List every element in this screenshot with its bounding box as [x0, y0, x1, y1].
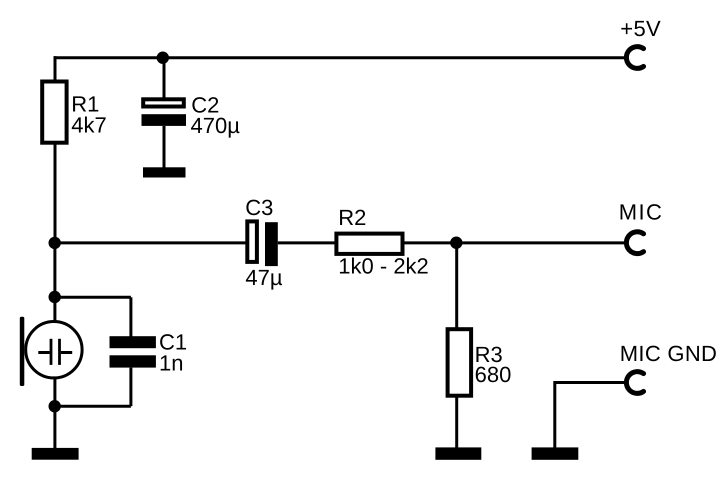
wire R3 to ground: [455, 396, 458, 448]
junction node top rail / C2: [157, 52, 169, 64]
ground below C2: [143, 167, 186, 177]
capacitor C3 left plate (+): [247, 221, 257, 262]
junction node mic bottom: [49, 400, 61, 412]
svg-text:1n: 1n: [159, 350, 183, 375]
wire C3 to R2: [278, 241, 336, 244]
wire top rail +5V: [54, 56, 625, 59]
microphone membrane bar: [20, 317, 25, 386]
svg-text:1k0 - 2k2: 1k0 - 2k2: [338, 254, 429, 279]
junction node mic top: [49, 291, 61, 303]
ground below R3: [435, 447, 481, 459]
wire mic bottom horizontal: [55, 405, 131, 408]
capacitor C1 top plate: [110, 336, 156, 348]
wire MIC GND vertical to ground: [553, 381, 556, 448]
microphone internal capacitor left bar: [50, 339, 53, 365]
capacitor C1 bottom plate: [110, 355, 156, 367]
svg-text:R2: R2: [338, 205, 366, 230]
wire junction down to R3: [455, 243, 458, 329]
ground below microphone: [32, 448, 79, 460]
wire mic circle top lead: [53, 297, 56, 321]
wire C1 top lead: [129, 297, 132, 337]
connector pin MIC GND: [626, 372, 643, 394]
resistor R2 body: [336, 234, 402, 254]
capacitor C2 top plate (+): [143, 99, 184, 106]
svg-text:470µ: 470µ: [191, 113, 241, 138]
junction node R2 right / R3: [450, 237, 462, 249]
wire mic bottom to ground: [53, 406, 56, 448]
svg-text:MIC GND: MIC GND: [620, 341, 717, 366]
svg-text:4k7: 4k7: [71, 112, 106, 137]
resistor R1 body: [42, 82, 66, 143]
wire left vertical top (rail to R1): [54, 56, 57, 81]
connector pin MIC: [626, 232, 643, 254]
wire R1 bottom to MIC-line junction: [54, 143, 57, 243]
microphone internal capacitor right bar: [58, 339, 61, 365]
wire C1 bottom lead: [129, 368, 132, 407]
microphone internal capacitor right lead: [61, 351, 72, 354]
svg-text:680: 680: [475, 362, 512, 387]
ground MIC GND: [532, 447, 579, 459]
wire C2 top lead: [163, 58, 166, 99]
wire mic top to C1 column: [55, 296, 131, 299]
microphone MIC1 body circle: [26, 322, 82, 378]
wire MIC-line junction down to mic: [53, 243, 56, 297]
capacitor C3 right plate: [265, 222, 278, 266]
svg-text:MIC: MIC: [619, 200, 664, 225]
wire MIC line left segment: [55, 241, 246, 244]
svg-text:C3: C3: [245, 195, 273, 220]
wire mic circle bottom lead: [53, 379, 56, 407]
junction node left MIC line: [49, 237, 61, 249]
microphone internal capacitor left lead: [38, 351, 49, 354]
wire C2 to ground: [163, 126, 166, 168]
wire R2 to MIC connector: [405, 241, 625, 244]
svg-text:+5V: +5V: [620, 16, 661, 41]
capacitor C2 bottom plate: [142, 114, 187, 126]
connector pin +5V: [626, 47, 643, 69]
svg-text:47µ: 47µ: [245, 265, 282, 290]
wire MIC GND horizontal: [555, 381, 624, 384]
resistor R3 body: [448, 329, 472, 396]
